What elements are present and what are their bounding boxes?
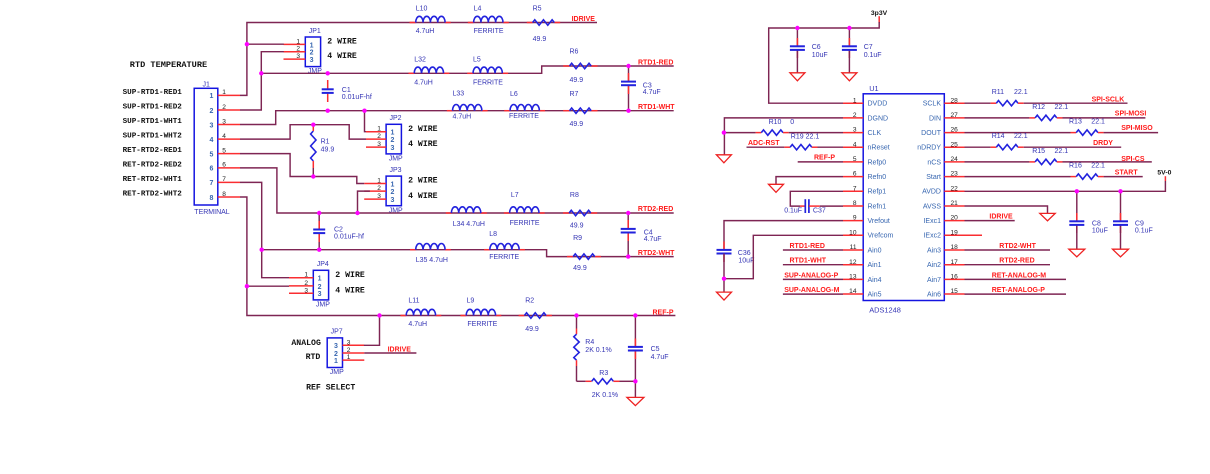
svg-text:3: 3	[377, 193, 381, 200]
svg-text:3: 3	[318, 291, 322, 298]
junction at (849.4,28)	[847, 26, 851, 30]
svg-text:Ain4: Ain4	[868, 277, 882, 284]
resistor R19 nReset / ADC-RST	[747, 134, 844, 150]
svg-text:2: 2	[304, 280, 308, 287]
capacitor C3	[621, 66, 661, 111]
resistor R9	[573, 235, 595, 272]
svg-text:3: 3	[310, 57, 314, 64]
svg-text:Refp1: Refp1	[868, 189, 887, 196]
svg-text:Ain3: Ain3	[927, 247, 941, 254]
ground C9	[1113, 249, 1129, 257]
junction at (246.9,286.2)	[245, 284, 249, 288]
svg-text:27: 27	[951, 112, 959, 119]
svg-text:21: 21	[951, 200, 959, 207]
junction at (1120.5,191.3)	[1118, 189, 1122, 193]
svg-text:22: 22	[951, 185, 959, 192]
svg-text:L4: L4	[474, 6, 482, 13]
svg-text:Refn0: Refn0	[868, 174, 887, 181]
svg-text:REF-P: REF-P	[653, 310, 674, 317]
jumper JP3	[364, 167, 437, 214]
svg-text:JP4: JP4	[317, 261, 329, 268]
svg-text:SUP-ANALOG-P: SUP-ANALOG-P	[784, 272, 838, 279]
resistor R1	[311, 125, 335, 176]
svg-text:RTD1-WHT: RTD1-WHT	[638, 104, 675, 111]
svg-text:RTD TEMPERATURE: RTD TEMPERATURE	[130, 60, 207, 70]
svg-text:C7: C7	[864, 44, 873, 51]
svg-text:3: 3	[390, 197, 394, 204]
svg-text:24: 24	[951, 156, 959, 163]
svg-text:IExc2: IExc2	[923, 233, 941, 240]
net label REF-P at Refp0	[814, 155, 835, 162]
J1 input net names	[123, 89, 183, 199]
junction at (1076.8,191.3)	[1075, 189, 1079, 193]
svg-text:RET-RTD2-RED1: RET-RTD2-RED1	[123, 147, 183, 155]
net label RET-ANALOG-P at Ain6	[965, 287, 1067, 294]
junction at (635.4,315.5)	[633, 313, 637, 317]
svg-text:22.1: 22.1	[1091, 163, 1105, 170]
svg-text:10uF: 10uF	[738, 258, 754, 265]
svg-text:0.01uF-hf: 0.01uF-hf	[342, 94, 372, 101]
junction at (628.2,256.6)	[626, 254, 630, 258]
svg-text:2: 2	[390, 189, 394, 196]
net label SPI-MISO	[1121, 125, 1153, 132]
svg-text:RTD: RTD	[306, 353, 321, 362]
svg-text:2: 2	[318, 284, 322, 291]
svg-text:6: 6	[210, 166, 214, 173]
svg-text:FERRITE: FERRITE	[509, 113, 539, 120]
svg-text:R7: R7	[570, 91, 579, 98]
wire JP7 pin3 riser	[364, 316, 380, 346]
resistor R4	[574, 316, 612, 382]
svg-text:8: 8	[853, 200, 857, 207]
svg-text:CLK: CLK	[868, 130, 882, 137]
svg-text:8: 8	[210, 195, 214, 202]
svg-text:5: 5	[853, 156, 857, 163]
svg-text:1: 1	[853, 97, 857, 104]
ground C36	[717, 292, 732, 300]
svg-text:R14: R14	[992, 133, 1005, 140]
svg-text:28: 28	[951, 97, 959, 104]
resistor R13 DOUT	[965, 119, 1159, 136]
svg-text:RTD2-WHT: RTD2-WHT	[638, 250, 675, 257]
net label ADC-RST	[748, 140, 780, 147]
svg-text:9: 9	[853, 215, 857, 222]
svg-text:REF SELECT: REF SELECT	[306, 383, 355, 392]
svg-text:1: 1	[377, 178, 381, 185]
svg-text:1: 1	[210, 93, 214, 100]
ground C8	[1069, 249, 1085, 257]
wire J1 pin1 to IDRIVE row A	[240, 23, 597, 96]
svg-text:7: 7	[210, 180, 214, 187]
power net 5V-0	[1157, 170, 1171, 177]
junction at (628.5,66)	[626, 64, 630, 68]
svg-text:Vrefout: Vrefout	[868, 218, 890, 225]
net label IDRIVE at JP7	[388, 347, 412, 354]
svg-text:R8: R8	[570, 192, 579, 199]
junction at (261.7,249.7)	[260, 248, 264, 252]
svg-text:15: 15	[951, 288, 959, 295]
wire JP3 pin2 tap	[358, 191, 370, 213]
svg-text:SPI-MOSI: SPI-MOSI	[1115, 110, 1147, 117]
svg-text:4 WIRE: 4 WIRE	[408, 140, 438, 149]
svg-text:R11: R11	[992, 89, 1004, 96]
resistor R15 nCS	[965, 148, 1152, 165]
svg-text:16: 16	[951, 274, 959, 281]
jumper JP1	[284, 28, 357, 75]
svg-text:22.1: 22.1	[1091, 119, 1105, 126]
jumper JP4	[289, 261, 365, 308]
ferrite L4	[474, 6, 504, 36]
wire J1 pin3 / row C RTD1-WHT	[240, 111, 674, 125]
svg-text:1: 1	[334, 358, 338, 365]
svg-text:Refp0: Refp0	[868, 159, 887, 166]
ground C7	[842, 73, 857, 81]
power net 3p3V	[769, 10, 888, 103]
resistor R10 CLK	[724, 119, 843, 135]
svg-text:RET-RTD2-WHT1: RET-RTD2-WHT1	[123, 176, 183, 184]
wire AVSS to ground	[965, 206, 1048, 213]
svg-text:3: 3	[304, 287, 308, 294]
svg-text:22.1: 22.1	[1014, 89, 1028, 96]
net label RTD2-WHT	[638, 250, 675, 257]
svg-text:L7: L7	[511, 192, 519, 199]
svg-text:3p3V: 3p3V	[871, 10, 888, 17]
svg-text:FERRITE: FERRITE	[489, 254, 519, 261]
inductor L34	[451, 207, 485, 228]
svg-text:1: 1	[390, 130, 394, 137]
svg-text:R3: R3	[599, 370, 608, 377]
svg-text:49.9: 49.9	[570, 121, 584, 128]
svg-text:4.7uH: 4.7uH	[416, 28, 435, 35]
svg-text:FERRITE: FERRITE	[467, 321, 497, 328]
svg-text:3: 3	[390, 145, 394, 152]
svg-text:2: 2	[334, 351, 338, 358]
svg-text:0.1uF: 0.1uF	[1135, 227, 1153, 234]
svg-text:2 WIRE: 2 WIRE	[408, 125, 438, 134]
svg-text:L32: L32	[414, 57, 426, 64]
svg-text:25: 25	[951, 141, 959, 148]
svg-text:12: 12	[849, 259, 857, 266]
wire AVDD rail to 5V-0	[965, 176, 1166, 191]
svg-text:JMP: JMP	[389, 156, 403, 163]
svg-text:R1: R1	[321, 139, 330, 146]
wire JP1 pin1 branch	[247, 43, 284, 45]
wire J1 pin5 to R1 bottom and JP3 pin1	[240, 154, 364, 184]
svg-text:SUP-RTD1-RED1: SUP-RTD1-RED1	[123, 89, 183, 97]
resistor R11 SCLK	[965, 89, 1128, 106]
inductor L35	[416, 243, 448, 263]
svg-text:2: 2	[296, 46, 300, 53]
svg-text:R6: R6	[570, 49, 579, 56]
svg-text:3: 3	[296, 53, 300, 60]
svg-text:JP7: JP7	[331, 329, 343, 336]
net label START	[1115, 169, 1139, 176]
svg-text:JMP: JMP	[316, 302, 330, 309]
wire J1 pin8 / JP4 pin2 / row G REF-P	[240, 197, 675, 316]
svg-text:17: 17	[951, 259, 959, 266]
ferrite L9	[466, 298, 497, 329]
svg-text:Ain5: Ain5	[868, 291, 882, 298]
svg-text:7: 7	[222, 176, 226, 183]
svg-text:R9: R9	[573, 235, 582, 242]
svg-text:23: 23	[951, 171, 959, 178]
junction at (261.3,73.3)	[259, 71, 263, 75]
svg-text:RET-ANALOG-M: RET-ANALOG-M	[992, 272, 1047, 279]
ferrite L7	[510, 192, 540, 227]
svg-text:SUP-RTD1-WHT2: SUP-RTD1-WHT2	[123, 133, 183, 141]
svg-text:R12: R12	[1032, 104, 1045, 111]
svg-text:2: 2	[377, 185, 381, 192]
junction at (628.2,213)	[626, 211, 630, 215]
ferrite L6	[509, 91, 539, 120]
svg-text:2: 2	[390, 137, 394, 144]
jumper JP7 REF SELECT	[291, 329, 364, 393]
svg-text:26: 26	[951, 127, 959, 134]
svg-text:11: 11	[850, 244, 857, 251]
svg-text:1: 1	[296, 38, 300, 45]
svg-text:RTD1-RED: RTD1-RED	[638, 60, 673, 67]
resistor R2	[524, 298, 546, 334]
wire JP2 pin1 tap	[365, 111, 367, 132]
svg-text:TERMINAL: TERMINAL	[194, 209, 230, 216]
svg-text:U1: U1	[869, 84, 878, 93]
wire row F RTD2-WHT	[262, 250, 674, 257]
svg-text:Start: Start	[926, 174, 941, 181]
junction at (319.2,213)	[317, 211, 321, 215]
net label RTD1-WHT	[638, 104, 675, 111]
svg-text:Ain0: Ain0	[868, 247, 882, 254]
capacitor C5	[628, 316, 669, 382]
svg-text:4.7uF: 4.7uF	[643, 89, 661, 96]
svg-text:6: 6	[222, 162, 226, 169]
svg-text:L34 4.7uH: L34 4.7uH	[453, 221, 485, 228]
net label RTD2-RED at Ain2	[965, 258, 1051, 265]
svg-text:10: 10	[849, 229, 857, 236]
wire J1 pin4 to R1 top and JP2 pin2	[240, 125, 366, 139]
svg-text:JMP: JMP	[330, 369, 344, 376]
svg-text:ANALOG: ANALOG	[291, 339, 321, 348]
svg-text:4: 4	[222, 133, 226, 140]
wire J1 pin6 / row D RTD2-RED	[240, 168, 674, 213]
svg-text:4 WIRE: 4 WIRE	[408, 192, 438, 201]
svg-text:49.9: 49.9	[533, 36, 547, 43]
capacitor C4	[621, 213, 662, 257]
svg-text:nDRDY: nDRDY	[917, 145, 941, 152]
svg-text:3: 3	[222, 118, 226, 125]
svg-text:SUP-RTD1-RED2: SUP-RTD1-RED2	[123, 104, 183, 112]
svg-text:2K 0.1%: 2K 0.1%	[592, 392, 618, 399]
resistor R14 nDRDY	[965, 133, 1122, 150]
svg-text:SPI-SCLK: SPI-SCLK	[1092, 97, 1125, 104]
junction at (379.5,315.5)	[377, 313, 381, 317]
svg-text:ADC-RST: ADC-RST	[748, 140, 780, 147]
resistor R16 Start	[965, 163, 1143, 180]
svg-text:22.1: 22.1	[1055, 148, 1069, 155]
svg-text:49.9: 49.9	[525, 326, 539, 333]
svg-text:C37: C37	[813, 208, 826, 215]
svg-text:nReset: nReset	[868, 145, 890, 152]
svg-text:R15: R15	[1032, 148, 1045, 155]
svg-text:1: 1	[377, 126, 381, 133]
svg-text:2 WIRE: 2 WIRE	[327, 38, 357, 47]
ferrite L5	[473, 57, 503, 87]
junction at (723.9,132.6)	[722, 130, 726, 134]
svg-text:R4: R4	[585, 339, 594, 346]
svg-text:0.1uF: 0.1uF	[864, 52, 882, 59]
net label RET-ANALOG-M at Ain7	[965, 272, 1067, 279]
svg-text:22.1: 22.1	[1014, 133, 1028, 140]
svg-text:3: 3	[853, 127, 857, 134]
svg-text:2: 2	[310, 50, 314, 57]
svg-text:DRDY: DRDY	[1093, 140, 1113, 147]
svg-text:L5: L5	[473, 57, 481, 64]
svg-text:1: 1	[390, 181, 394, 188]
svg-text:2: 2	[377, 133, 381, 140]
svg-text:10uF: 10uF	[812, 52, 828, 59]
net label IDRIVE at IExc1	[989, 214, 1013, 221]
svg-text:C5: C5	[651, 346, 660, 353]
svg-text:10uF: 10uF	[1092, 227, 1108, 234]
net label RTD1-WHT at Ain1	[783, 258, 843, 265]
svg-text:SUP-RTD1-WHT1: SUP-RTD1-WHT1	[123, 118, 183, 126]
junction at (364.5,110.7)	[362, 109, 366, 113]
svg-text:C36: C36	[738, 250, 751, 257]
resistor R7	[570, 91, 592, 128]
net label RTD1-RED at Ain0	[783, 243, 843, 250]
svg-text:DOUT: DOUT	[921, 130, 942, 137]
svg-text:4: 4	[210, 137, 214, 144]
svg-text:2: 2	[222, 104, 226, 111]
svg-text:RTD2-RED: RTD2-RED	[638, 206, 673, 213]
svg-text:2: 2	[210, 108, 214, 115]
resistor R5	[533, 6, 555, 44]
connector J1 TERMINAL	[194, 82, 240, 216]
svg-text:5: 5	[222, 147, 226, 154]
ferrite L8	[489, 231, 519, 261]
svg-text:Refn1: Refn1	[868, 203, 887, 210]
svg-text:49.9: 49.9	[570, 223, 584, 230]
junction at (313.3,124.7)	[311, 123, 315, 127]
wire JP7 pin2 IDRIVE	[364, 352, 416, 354]
svg-text:5V-0: 5V-0	[1157, 170, 1171, 177]
capacitor C6	[790, 28, 828, 73]
junction at (797.4,28)	[795, 26, 799, 30]
svg-text:R10: R10	[769, 119, 782, 126]
capacitor C36 Vrefout	[717, 221, 844, 279]
svg-text:4.7uH: 4.7uH	[414, 80, 433, 87]
svg-text:START: START	[1115, 169, 1139, 176]
svg-text:AVSS: AVSS	[923, 203, 941, 210]
svg-text:0: 0	[790, 119, 794, 126]
capacitor C1	[322, 80, 372, 102]
svg-text:7: 7	[853, 185, 857, 192]
svg-text:1: 1	[222, 89, 226, 96]
svg-text:Vrefcom: Vrefcom	[868, 233, 894, 240]
net label REF-P	[653, 310, 674, 317]
ground AVSS	[1040, 213, 1055, 221]
svg-text:4 WIRE: 4 WIRE	[327, 52, 357, 61]
svg-text:REF-P: REF-P	[814, 155, 835, 162]
wire IExc1 IDRIVE	[965, 220, 1015, 222]
svg-text:3: 3	[210, 122, 214, 129]
junction at (313.3,176.5)	[311, 174, 315, 178]
net label RTD2-RED	[638, 206, 673, 213]
svg-text:0.01uF-hf: 0.01uF-hf	[334, 234, 364, 241]
svg-text:JP1: JP1	[309, 28, 321, 35]
svg-text:49.9: 49.9	[570, 77, 584, 84]
resistor R3	[577, 370, 636, 399]
svg-text:R16: R16	[1069, 163, 1082, 170]
svg-text:SPI-CS: SPI-CS	[1121, 156, 1145, 163]
svg-text:IDRIVE: IDRIVE	[989, 214, 1013, 221]
junction at (628.5,110.7)	[626, 109, 630, 113]
svg-text:IDRIVE: IDRIVE	[572, 16, 596, 23]
svg-text:4.7uH: 4.7uH	[453, 114, 472, 121]
svg-text:RTD2-WHT: RTD2-WHT	[999, 243, 1036, 250]
svg-text:RTD1-WHT: RTD1-WHT	[790, 258, 827, 265]
net label RTD1-RED	[638, 60, 673, 67]
wire DGND to ground	[724, 118, 843, 155]
svg-text:R2: R2	[525, 298, 534, 305]
ground Refn0	[769, 184, 784, 192]
junction at (635.4,381.3)	[633, 379, 637, 383]
svg-text:Ain7: Ain7	[927, 277, 941, 284]
svg-text:L8: L8	[489, 231, 497, 238]
svg-text:4: 4	[853, 141, 857, 148]
jumper JP2	[366, 115, 438, 162]
svg-text:R5: R5	[533, 6, 542, 13]
svg-text:C6: C6	[812, 44, 821, 51]
svg-text:20: 20	[951, 215, 959, 222]
net label SUP-ANALOG-P at Ain4	[783, 272, 843, 279]
svg-text:2K 0.1%: 2K 0.1%	[585, 347, 611, 354]
svg-text:SUP-ANALOG-M: SUP-ANALOG-M	[784, 287, 839, 294]
stub IExc2 pin19	[944, 234, 982, 236]
svg-text:FERRITE: FERRITE	[510, 220, 540, 227]
svg-text:RTD2-RED: RTD2-RED	[999, 258, 1034, 265]
capacitor C2	[313, 213, 364, 250]
inductor L11	[406, 298, 435, 329]
net label SPI-CS	[1121, 156, 1145, 163]
junction at (724,278.7)	[722, 277, 726, 281]
svg-text:6: 6	[853, 171, 857, 178]
title RTD TEMPERATURE	[130, 60, 207, 70]
svg-text:FERRITE: FERRITE	[474, 28, 504, 35]
svg-text:nCS: nCS	[927, 159, 941, 166]
svg-text:L6: L6	[510, 91, 518, 98]
svg-text:2 WIRE: 2 WIRE	[408, 177, 438, 186]
ground REF network	[627, 381, 644, 405]
svg-text:L33: L33	[453, 91, 465, 98]
svg-text:1: 1	[304, 272, 308, 279]
wire J1 pin7 to JP4 pin1	[240, 182, 289, 277]
svg-text:1: 1	[347, 354, 351, 361]
svg-text:4.7uF: 4.7uF	[651, 354, 669, 361]
svg-text:2 WIRE: 2 WIRE	[335, 271, 365, 280]
svg-text:J1: J1	[203, 82, 211, 89]
svg-text:R19 22.1: R19 22.1	[791, 134, 820, 141]
svg-text:4.7uH: 4.7uH	[408, 321, 427, 328]
svg-text:SPI-MISO: SPI-MISO	[1121, 125, 1153, 132]
svg-text:JMP: JMP	[308, 68, 322, 75]
resistor R12 DIN	[965, 104, 1146, 121]
svg-text:RET-RTD2-RED2: RET-RTD2-RED2	[123, 161, 183, 169]
net label SPI-SCLK	[1092, 97, 1125, 104]
net label DRDY	[1093, 140, 1113, 147]
svg-text:L35 4.7uH: L35 4.7uH	[416, 257, 448, 264]
wire Refn0 to ground	[776, 177, 843, 184]
junction at (357.5,213)	[355, 211, 359, 215]
